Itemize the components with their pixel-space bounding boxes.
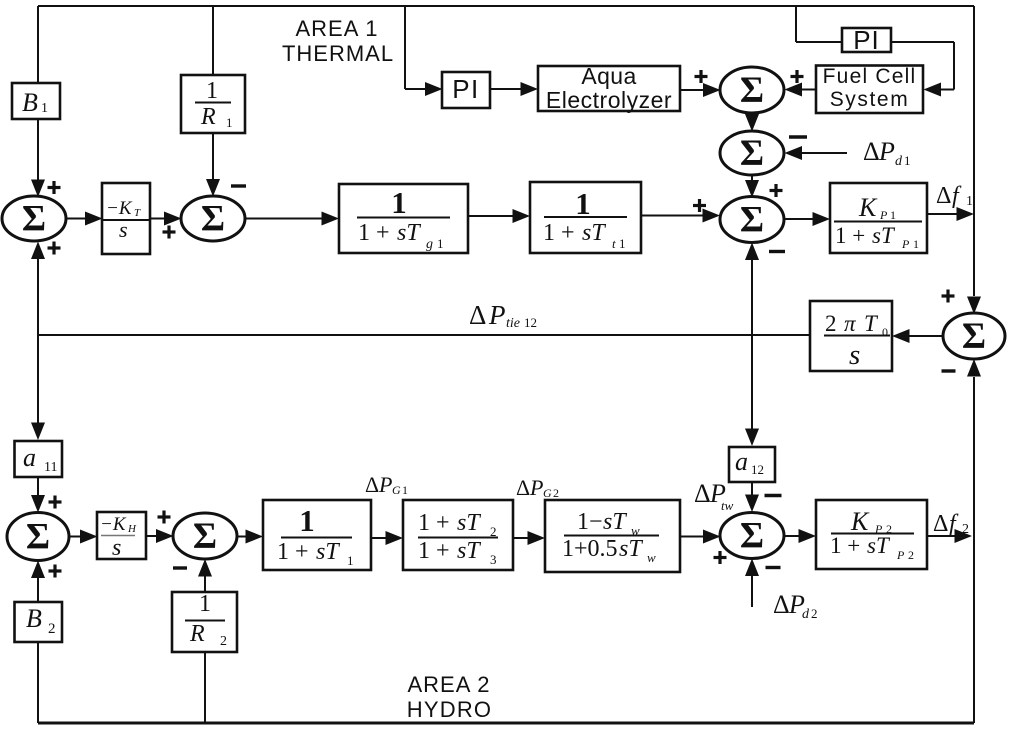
svg-text:sT: sT: [397, 220, 421, 246]
svg-text:Σ: Σ: [26, 517, 50, 558]
svg-text:2: 2: [908, 548, 914, 562]
svg-text:2: 2: [220, 634, 227, 649]
svg-text:2: 2: [553, 486, 559, 500]
svg-text:1: 1: [966, 194, 973, 209]
svg-text:T: T: [864, 311, 879, 336]
svg-text:π: π: [844, 311, 857, 336]
svg-text:1 +: 1 +: [277, 539, 309, 565]
svg-text:Δ: Δ: [365, 472, 379, 497]
svg-text:sT: sT: [457, 538, 481, 564]
svg-text:s: s: [112, 535, 121, 561]
svg-text:1 +: 1 +: [830, 533, 860, 558]
svg-text:Aqua: Aqua: [581, 63, 636, 89]
svg-text:sT: sT: [582, 220, 606, 246]
svg-text:PI: PI: [452, 74, 480, 104]
svg-text:AREA 1: AREA 1: [295, 16, 378, 41]
svg-text:sT: sT: [619, 536, 643, 562]
svg-text:Σ: Σ: [740, 133, 764, 174]
svg-text:Δ: Δ: [863, 137, 880, 166]
svg-text:1: 1: [226, 115, 233, 130]
svg-text:R: R: [189, 621, 205, 647]
svg-text:tie: tie: [506, 316, 520, 331]
svg-text:0: 0: [882, 325, 888, 339]
svg-text:Σ: Σ: [201, 199, 225, 240]
svg-text:Σ: Σ: [740, 516, 764, 557]
svg-text:Σ: Σ: [740, 200, 764, 241]
svg-text:Σ: Σ: [22, 199, 46, 240]
svg-text:1: 1: [890, 208, 896, 222]
svg-text:Δ: Δ: [773, 590, 790, 619]
svg-text:PI: PI: [853, 25, 880, 55]
svg-text:1−: 1−: [577, 509, 603, 535]
svg-text:Δ: Δ: [469, 300, 486, 330]
svg-text:−K: −K: [106, 198, 133, 219]
svg-text:Δ: Δ: [694, 479, 711, 508]
svg-text:2: 2: [962, 522, 969, 537]
svg-text:B: B: [22, 88, 38, 117]
svg-text:12: 12: [751, 462, 764, 477]
svg-text:Σ: Σ: [962, 316, 986, 357]
svg-text:System: System: [830, 88, 910, 111]
svg-text:w: w: [647, 550, 656, 565]
svg-text:G: G: [392, 483, 401, 497]
svg-text:2: 2: [825, 311, 837, 336]
svg-text:t: t: [612, 236, 616, 251]
svg-text:P: P: [529, 475, 543, 500]
svg-text:Σ: Σ: [740, 70, 764, 111]
svg-text:1 +: 1 +: [418, 510, 450, 536]
svg-text:1: 1: [199, 591, 211, 617]
svg-text:1: 1: [619, 236, 626, 251]
svg-text:1: 1: [437, 236, 444, 251]
svg-text:P: P: [879, 208, 888, 222]
svg-text:AREA 2: AREA 2: [407, 672, 490, 697]
svg-text:1 +: 1 +: [543, 220, 575, 246]
svg-text:s: s: [119, 217, 128, 242]
svg-text:Fuel Cell: Fuel Cell: [823, 65, 917, 88]
svg-text:P: P: [878, 137, 895, 166]
svg-text:1: 1: [575, 186, 591, 221]
svg-text:1: 1: [913, 237, 919, 251]
svg-text:1 +: 1 +: [835, 223, 865, 248]
svg-text:sT: sT: [867, 533, 891, 558]
svg-text:1: 1: [299, 503, 315, 538]
svg-text:12: 12: [524, 315, 537, 330]
svg-text:G: G: [543, 486, 552, 500]
svg-text:1 +: 1 +: [358, 220, 390, 246]
svg-text:1: 1: [402, 483, 408, 497]
svg-text:1: 1: [391, 185, 407, 220]
svg-text:Δ: Δ: [936, 183, 951, 209]
svg-text:s: s: [849, 339, 860, 371]
svg-text:R: R: [200, 104, 216, 130]
svg-text:sT: sT: [316, 539, 340, 565]
svg-text:2: 2: [811, 606, 818, 621]
svg-text:K: K: [858, 193, 878, 222]
svg-text:P: P: [896, 548, 905, 562]
svg-text:sT: sT: [603, 509, 627, 535]
svg-text:1: 1: [347, 553, 354, 568]
svg-text:K: K: [850, 507, 870, 536]
svg-text:tw: tw: [721, 498, 734, 513]
svg-text:−K: −K: [100, 514, 127, 535]
svg-text:H: H: [127, 523, 137, 535]
svg-text:Δ: Δ: [516, 475, 530, 500]
svg-text:T: T: [134, 207, 141, 219]
svg-text:Σ: Σ: [193, 516, 217, 557]
svg-text:P: P: [378, 472, 392, 497]
svg-text:a: a: [23, 443, 36, 472]
svg-text:Electrolyzer: Electrolyzer: [546, 87, 672, 113]
svg-text:d: d: [802, 607, 810, 622]
svg-text:B: B: [26, 604, 42, 633]
svg-text:P: P: [901, 237, 910, 251]
svg-text:a: a: [735, 447, 748, 476]
svg-text:1: 1: [904, 153, 911, 168]
svg-text:sT: sT: [872, 223, 896, 248]
svg-text:HYDRO: HYDRO: [407, 697, 492, 722]
svg-text:3: 3: [490, 552, 497, 567]
svg-text:1: 1: [206, 78, 218, 104]
svg-text:P: P: [488, 300, 506, 330]
svg-text:1: 1: [41, 101, 48, 116]
svg-text:1+0.5: 1+0.5: [562, 536, 618, 562]
svg-text:g: g: [426, 237, 433, 252]
svg-text:THERMAL: THERMAL: [282, 41, 394, 66]
svg-text:11: 11: [44, 460, 57, 475]
svg-text:2: 2: [48, 621, 56, 637]
svg-text:Δ: Δ: [933, 511, 948, 537]
svg-text:d: d: [895, 154, 903, 169]
svg-text:1 +: 1 +: [418, 538, 450, 564]
svg-text:sT: sT: [457, 510, 481, 536]
